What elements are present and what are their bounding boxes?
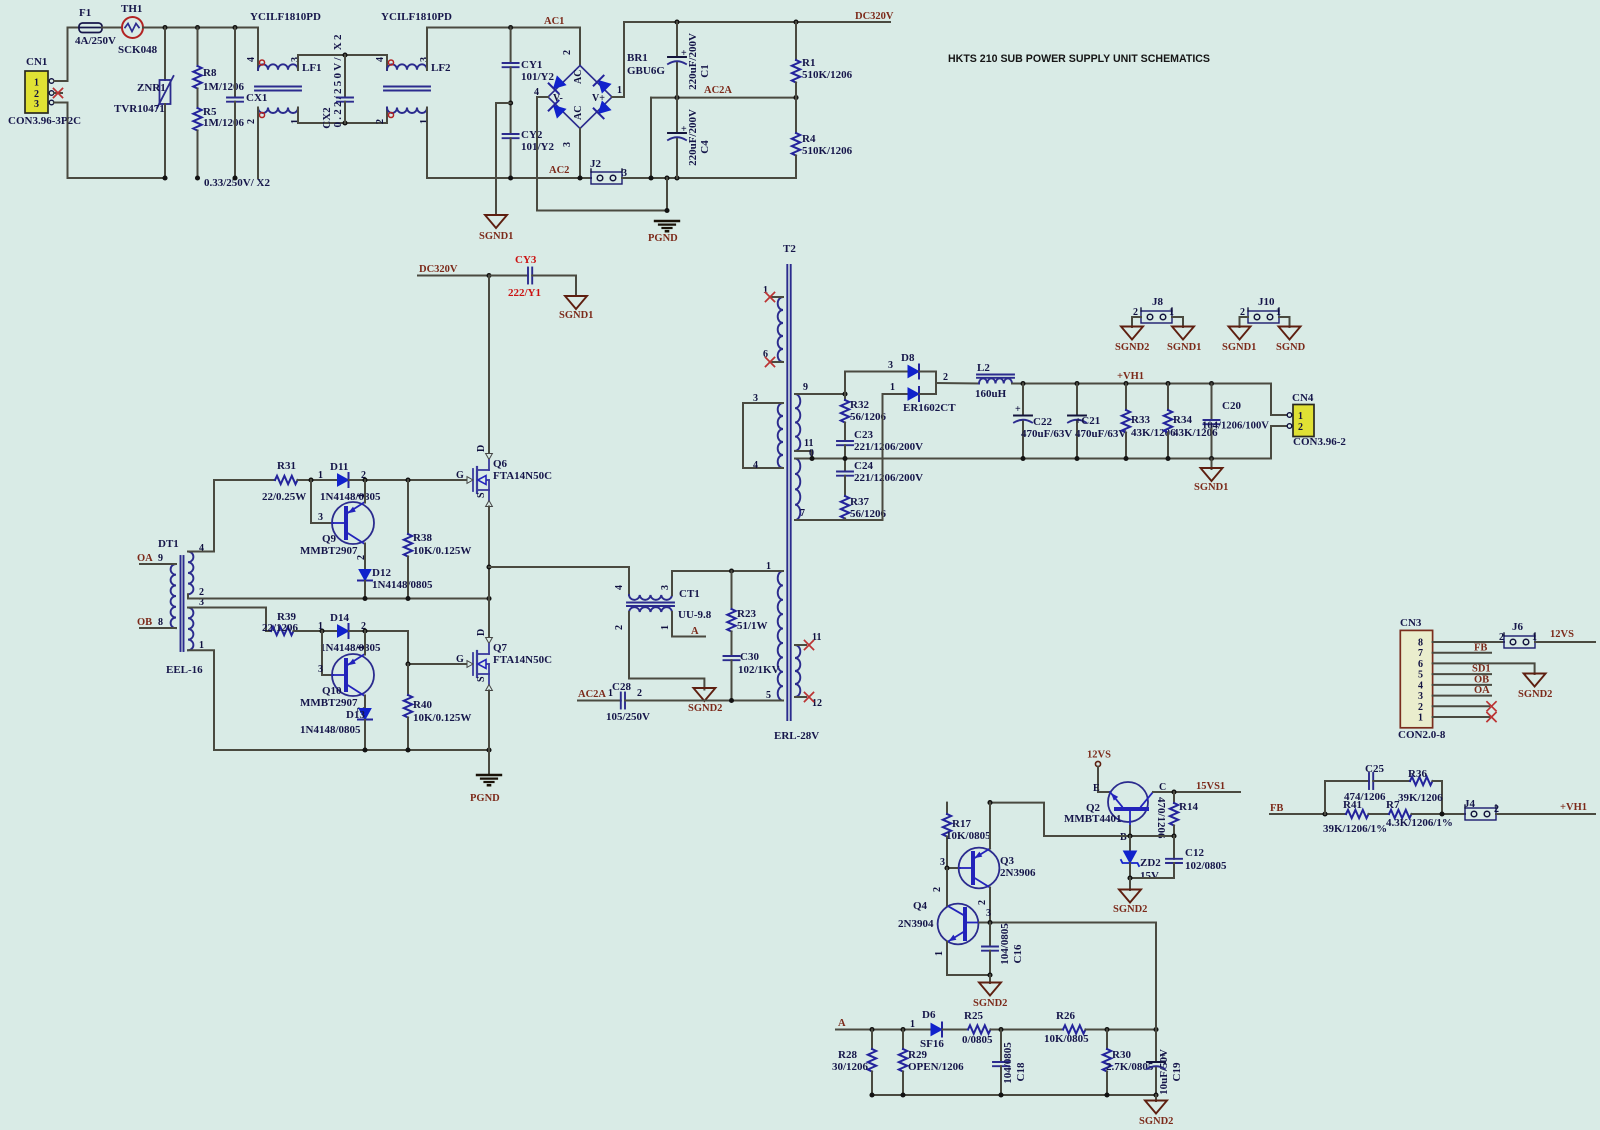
wire Q4 emitter / C16 to SGND2 — [947, 972, 993, 983]
svg-text:7: 7 — [800, 508, 805, 519]
jumper J4 — [1464, 798, 1499, 820]
svg-text:Q6: Q6 — [493, 458, 508, 470]
svg-text:C20: C20 — [1222, 400, 1241, 412]
wire CN4 pin2 to return — [1271, 426, 1287, 459]
no-connect X T2 pin1 — [766, 293, 775, 302]
junction dots bottom rail — [162, 175, 167, 180]
svg-text:HKTS 210 SUB POWER SUPPLY UNIT: HKTS 210 SUB POWER SUPPLY UNIT SCHEMATIC… — [948, 53, 1210, 65]
resistor R17 10K/0805 — [943, 800, 993, 868]
resistor R30 2.7K/0805 — [1103, 1030, 1154, 1096]
svg-text:R23: R23 — [737, 608, 756, 620]
wire to SGND1 (input) — [496, 103, 511, 215]
resistor R39 22/1206 — [262, 611, 299, 635]
wire BR1 pin4 (V-) to PGND line — [537, 97, 667, 211]
capacitor C30 102/1KV — [724, 632, 780, 701]
wire TH1 to LF1 (top rail) — [143, 28, 258, 71]
svg-text:R4: R4 — [802, 133, 816, 145]
base wire Q4 to bottom feedback — [979, 920, 1156, 925]
svg-text:J10: J10 — [1258, 296, 1275, 308]
mosfet Q6 FTA14N50C — [456, 445, 552, 507]
wire LF2 pin1 to bottom AC2 rail — [427, 108, 591, 179]
svg-text:1: 1 — [608, 688, 613, 699]
svg-text:5: 5 — [1418, 670, 1423, 681]
svg-text:3: 3 — [562, 142, 573, 147]
ground PGND (input) — [648, 221, 679, 244]
svg-text:FTA14N50C: FTA14N50C — [493, 470, 552, 482]
svg-text:SGND2: SGND2 — [1115, 342, 1149, 353]
svg-text:C18: C18 — [1015, 1062, 1027, 1081]
capacitor C16 104/0805 — [982, 923, 1024, 976]
diode D6 SF16 — [910, 1009, 944, 1050]
svg-text:220uF/200V: 220uF/200V — [687, 33, 699, 90]
svg-text:2: 2 — [375, 119, 386, 124]
wire D6 to R25 — [943, 1029, 969, 1031]
capacitor CY3 222/Y1 — [489, 254, 576, 299]
svg-text:4.3K/1206/1%: 4.3K/1206/1% — [1386, 817, 1453, 829]
capacitor C4 220uF/200V — [668, 98, 711, 178]
svg-text:A: A — [838, 1018, 846, 1029]
ground SGND2 (CT1) — [688, 688, 722, 714]
svg-text:10K/0805: 10K/0805 — [946, 830, 991, 842]
svg-text:C16: C16 — [1012, 944, 1024, 963]
ground SGND2 (J8 left) — [1115, 327, 1149, 354]
svg-text:1: 1 — [1298, 411, 1303, 422]
svg-text:R1: R1 — [802, 57, 815, 69]
diode D12 1N4148/0805 — [358, 567, 433, 599]
wire +VH1 to CN4 pin1 — [1271, 384, 1287, 416]
svg-text:9: 9 — [158, 553, 163, 564]
transformer T2 ERL-28V core — [774, 243, 819, 742]
resistor R1 510K/1206 — [792, 22, 853, 98]
varistor ZNR1 TVR10471 — [114, 28, 174, 179]
svg-text:SCK048: SCK048 — [118, 44, 158, 56]
resistor R25 0/0805 — [962, 1010, 993, 1046]
diode D13 1N4148/0805 — [300, 709, 372, 751]
wire ZD2/C12 to SGND2 — [1127, 875, 1174, 890]
T2 primary winding pins 1-5 — [766, 561, 783, 701]
wire CN1 pin1 to top rail — [54, 28, 79, 82]
wire BR1 V+ to DC320V rail — [612, 22, 890, 97]
svg-text:FTA14N50C: FTA14N50C — [493, 654, 552, 666]
svg-text:AC: AC — [573, 106, 584, 120]
net label +VH1 (J4) — [1496, 802, 1595, 814]
resistor R33 43K/1206 — [1122, 384, 1176, 459]
svg-text:D13: D13 — [346, 709, 365, 721]
wire J2 to AC2A — [622, 98, 651, 178]
svg-text:1: 1 — [34, 78, 39, 89]
svg-text:CX2: CX2 — [321, 107, 333, 129]
svg-text:3: 3 — [318, 512, 323, 523]
svg-text:1: 1 — [910, 1019, 915, 1030]
svg-text:8: 8 — [158, 617, 163, 628]
ground SGND2 (CN3 pin6) — [1518, 674, 1552, 701]
resistor R7 4.3K/1206/1% — [1386, 799, 1453, 829]
bottom return rail — [869, 1092, 1158, 1101]
output return rail dots — [1020, 456, 1214, 461]
svg-text:CY2: CY2 — [521, 129, 543, 141]
svg-text:101/Y2: 101/Y2 — [521, 71, 555, 83]
wire DT1 pin3 to R39 — [188, 608, 271, 632]
net label A (CT1 pin1) — [672, 612, 705, 637]
connector CN3 CON2.0-8 — [1398, 617, 1446, 741]
svg-text:2: 2 — [977, 900, 988, 905]
junction dot CY1/CY2 midpoint — [508, 100, 513, 105]
svg-text:V+: V+ — [592, 93, 605, 104]
T2 secondary winding pins 9-11 — [795, 382, 814, 459]
wire switch node to CT1 pin4 — [489, 567, 629, 595]
svg-text:ER1602CT: ER1602CT — [903, 402, 956, 414]
wire LF1 pin3 to LF2 pin4 (upper link) — [298, 55, 387, 70]
net label FB — [1270, 803, 1346, 817]
capacitor CY1 101/Y2 — [503, 28, 555, 135]
svg-text:1: 1 — [660, 625, 671, 630]
svg-text:R40: R40 — [413, 699, 432, 711]
resistor R36 39K/1206 — [1373, 768, 1443, 814]
connector CN1 — [8, 56, 81, 127]
net label OB pin 8 — [137, 617, 176, 628]
thermistor TH1 SCK048 — [118, 3, 158, 56]
connector CN4 CON3.96-2 — [1287, 392, 1346, 448]
capacitor C23 221/1206/200V — [837, 423, 923, 459]
svg-text:470/1206: 470/1206 — [1155, 797, 1167, 839]
svg-text:GBU6G: GBU6G — [627, 65, 665, 77]
svg-text:Q7: Q7 — [493, 642, 508, 654]
svg-text:Q4: Q4 — [913, 900, 928, 912]
svg-text:Q10: Q10 — [322, 685, 342, 697]
svg-text:102/1KV: 102/1KV — [738, 664, 780, 676]
svg-text:104/1206/100V: 104/1206/100V — [1202, 420, 1269, 432]
svg-text:4A/250V: 4A/250V — [75, 35, 116, 47]
net stub FB (CN3 pin7) — [1433, 643, 1491, 654]
wire R39 to D14 — [294, 630, 338, 632]
wire T2 pin9 node up to D8 pin3 — [845, 372, 908, 395]
resistor R40 10K/0.125W — [404, 664, 472, 750]
svg-text:2: 2 — [614, 625, 625, 630]
svg-text:R8: R8 — [203, 67, 217, 79]
gate drive transformer DT1 EEL-16 — [158, 538, 204, 676]
svg-text:D6: D6 — [922, 1009, 936, 1021]
svg-text:R30: R30 — [1112, 1049, 1131, 1061]
svg-text:R38: R38 — [413, 532, 432, 544]
svg-text:MMBT4401: MMBT4401 — [1064, 813, 1121, 825]
svg-text:MMBT2907: MMBT2907 — [300, 697, 358, 709]
svg-text:OPEN/1206: OPEN/1206 — [908, 1061, 964, 1073]
resistor R37 56/1206 — [841, 496, 887, 520]
svg-text:2: 2 — [637, 688, 642, 699]
svg-text:56/1206: 56/1206 — [850, 411, 887, 423]
svg-text:OA: OA — [1474, 685, 1490, 696]
current transformer CT1 UU-9.8 — [614, 585, 712, 630]
svg-text:DC320V: DC320V — [419, 264, 458, 275]
resistor R41 39K/1206/1% — [1323, 799, 1387, 835]
jumper J6 — [1499, 621, 1537, 648]
svg-text:+: + — [1015, 404, 1021, 415]
svg-text:10K/0.125W: 10K/0.125W — [413, 545, 471, 557]
svg-text:R34: R34 — [1173, 414, 1192, 426]
T2 shield winding pins 3-4 — [743, 393, 783, 471]
resistor R31 22/0.25W — [262, 460, 306, 503]
common-mode choke LF1 YCILF1810PD — [246, 11, 322, 124]
resistor R23 51/1W — [727, 571, 767, 632]
wire J10 pin1 to SGND — [1279, 317, 1290, 327]
svg-text:EEL-16: EEL-16 — [166, 664, 203, 676]
svg-text:OB: OB — [1474, 675, 1489, 686]
svg-text:1: 1 — [1418, 713, 1423, 724]
capacitor C24 221/1206/200V — [837, 459, 923, 497]
svg-text:1M/1206: 1M/1206 — [203, 117, 244, 129]
wire Q4 base line down to bottom net — [1155, 923, 1157, 1030]
svg-text:J6: J6 — [1512, 621, 1524, 633]
svg-text:R29: R29 — [908, 1049, 927, 1061]
svg-text:39K/1206/1%: 39K/1206/1% — [1323, 823, 1387, 835]
svg-text:221/1206/200V: 221/1206/200V — [854, 472, 923, 484]
svg-text:TH1: TH1 — [121, 3, 142, 15]
svg-text:SGND1: SGND1 — [1222, 342, 1256, 353]
svg-text:102/0805: 102/0805 — [1185, 860, 1227, 872]
svg-text:YCILF1810PD: YCILF1810PD — [381, 11, 452, 23]
svg-text:1N4148/0805: 1N4148/0805 — [320, 491, 381, 503]
wire CN3 pin6 to SGND2 — [1433, 663, 1535, 674]
svg-text:510K/1206: 510K/1206 — [802, 145, 853, 157]
no-connect X on CN1 pin 2 — [54, 89, 63, 98]
svg-text:R7: R7 — [1386, 799, 1400, 811]
wire D14 cathode to Q7 gate node — [349, 631, 466, 664]
wire CT1 pin3 to T2 pin1 — [672, 571, 783, 595]
resistor R28 30/1206 — [832, 1027, 876, 1095]
resistor R5 1M/1206 — [193, 89, 244, 179]
svg-text:AC2: AC2 — [549, 165, 569, 176]
capacitor C22 470uF/63V — [1014, 384, 1072, 459]
svg-text:R17: R17 — [952, 818, 971, 830]
svg-text:3: 3 — [419, 57, 430, 62]
net AC2A rail — [651, 97, 796, 99]
wire R41 to R7 — [1369, 813, 1390, 815]
svg-text:SGND1: SGND1 — [1194, 482, 1228, 493]
svg-text:Q9: Q9 — [322, 533, 337, 545]
svg-text:R36: R36 — [1408, 768, 1427, 780]
net stub OB (CN3 pin4) — [1433, 675, 1491, 686]
svg-text:C19: C19 — [1171, 1062, 1183, 1081]
wire R7 to J4 — [1412, 813, 1466, 815]
ground SGND1 (output) — [1194, 459, 1228, 494]
svg-text:0/0805: 0/0805 — [962, 1034, 993, 1046]
wire R26 to C19 column — [1086, 1029, 1157, 1031]
wire J8 pin1 to SGND1 — [1172, 317, 1183, 327]
wire CT1 pin2 to SGND2 — [629, 612, 704, 690]
svg-text:104/0805: 104/0805 — [999, 923, 1011, 965]
junction R17/Q3/Q4 — [944, 865, 949, 870]
capacitor C18 104/0805 — [993, 1030, 1027, 1096]
svg-text:TVR10471: TVR10471 — [114, 103, 165, 115]
svg-text:4: 4 — [375, 57, 386, 62]
bottom rail to R4 — [651, 177, 796, 179]
wire PGND stem — [666, 178, 668, 211]
svg-text:PGND: PGND — [470, 793, 500, 804]
resistor R26 10K/0805 — [1044, 1010, 1089, 1045]
jumper J10 — [1240, 296, 1281, 323]
common-mode choke LF2 YCILF1810PD — [375, 11, 452, 124]
svg-text:C30: C30 — [740, 651, 759, 663]
svg-text:2: 2 — [1499, 632, 1504, 643]
capacitor CY2 101/Y2 — [503, 129, 555, 178]
svg-text:2: 2 — [1418, 702, 1423, 713]
svg-text:2N3906: 2N3906 — [1000, 867, 1036, 879]
svg-text:ZNR1: ZNR1 — [137, 82, 166, 94]
wire J10 pin2 to SGND1 — [1240, 317, 1249, 327]
svg-text:7: 7 — [1418, 648, 1423, 659]
svg-text:DC320V: DC320V — [855, 11, 894, 22]
svg-text:1N4148/0805: 1N4148/0805 — [372, 579, 433, 591]
svg-text:OB: OB — [137, 617, 152, 628]
junction dots DC320V rail — [674, 19, 679, 24]
transistor Q10 MMBT2907 — [300, 631, 374, 712]
ground SGND2 (bottom) — [1139, 1101, 1173, 1128]
svg-text:YCILF1810PD: YCILF1810PD — [250, 11, 321, 23]
svg-text:3: 3 — [34, 99, 39, 110]
svg-text:DT1: DT1 — [158, 538, 179, 550]
svg-text:9: 9 — [803, 382, 808, 393]
svg-text:C12: C12 — [1185, 847, 1204, 859]
jumper J2 — [590, 158, 627, 184]
transistor Q9 MMBT2907 — [300, 480, 374, 569]
capacitor C20 104/1206/100V — [1202, 384, 1269, 459]
svg-text:ERL-28V: ERL-28V — [774, 730, 819, 742]
svg-text:CY3: CY3 — [515, 254, 537, 266]
svg-text:1: 1 — [934, 951, 945, 956]
net label OA pin 9 — [137, 553, 176, 564]
ground SGND1 (J8 right) — [1167, 327, 1201, 354]
wire CY3 to SGND1 — [575, 276, 577, 297]
svg-text:2: 2 — [943, 372, 948, 383]
capacitor C25 474/1206 — [1325, 763, 1386, 814]
wire DT1 pin4 up to R31 — [188, 480, 275, 552]
T2 secondary winding pins 10-7 — [795, 459, 805, 521]
ground SGND1 (input filter) — [479, 215, 513, 242]
svg-text:R37: R37 — [850, 496, 869, 508]
svg-text:12VS: 12VS — [1550, 629, 1574, 640]
svg-text:12VS: 12VS — [1087, 750, 1111, 761]
svg-text:1: 1 — [356, 645, 367, 650]
svg-text:2: 2 — [562, 50, 573, 55]
svg-text:56/1206: 56/1206 — [850, 508, 887, 520]
T2 aux winding pins 1-6 — [763, 285, 783, 362]
svg-text:C22: C22 — [1033, 416, 1052, 428]
svg-text:6: 6 — [1418, 659, 1423, 670]
net label A (bottom) — [836, 1018, 931, 1030]
diode D14 1N4148/0805 — [318, 612, 381, 654]
svg-text:AC2A: AC2A — [704, 85, 732, 96]
svg-text:R14: R14 — [1179, 801, 1198, 813]
svg-text:C23: C23 — [854, 429, 873, 441]
svg-text:OA: OA — [137, 553, 153, 564]
svg-text:3: 3 — [660, 585, 671, 590]
svg-text:F1: F1 — [79, 7, 91, 19]
svg-text:R26: R26 — [1056, 1010, 1075, 1022]
svg-text:30/1206: 30/1206 — [832, 1061, 869, 1073]
svg-text:CN3: CN3 — [1400, 617, 1422, 629]
ground SGND2 (regulator) — [1113, 890, 1147, 916]
svg-text:1M/1206: 1M/1206 — [203, 81, 244, 93]
ground SGND1 (J10 left) — [1222, 327, 1256, 354]
svg-text:CN1: CN1 — [26, 56, 47, 68]
wire LF2 pin3 to AC1 rail — [427, 28, 580, 71]
svg-text:S: S — [476, 492, 487, 498]
wire C28 to T2 pin5 — [625, 700, 783, 702]
svg-text:SD1: SD1 — [1472, 664, 1491, 675]
ground PGND (half bridge) — [470, 775, 501, 804]
svg-text:D: D — [476, 629, 487, 636]
svg-text:8: 8 — [1418, 638, 1423, 649]
wire LF1 pin1 to LF2 pin2 (lower link) — [298, 108, 387, 124]
resistor R32 56/1206 — [805, 391, 887, 423]
svg-text:22/0.25W: 22/0.25W — [262, 491, 306, 503]
svg-text:FB: FB — [1474, 643, 1487, 654]
no-connect X T2 pin6 — [766, 358, 775, 367]
wire J8 pin2 to SGND2 — [1132, 317, 1141, 327]
svg-text:CON2.0-8: CON2.0-8 — [1398, 729, 1446, 741]
center tap rail (T2 pin10 to output return) — [795, 456, 1271, 461]
svg-text:470uF/63V: 470uF/63V — [1075, 428, 1126, 440]
svg-text:1N4148/0805: 1N4148/0805 — [320, 642, 381, 654]
resistor R4 510K/1206 — [792, 98, 853, 178]
svg-text:C28: C28 — [612, 681, 631, 693]
svg-text:SGND2: SGND2 — [1139, 1116, 1173, 1127]
svg-text:LF2: LF2 — [431, 62, 451, 74]
switch node wire (DT1 pin2 / D12 / R38 / Q6 source) — [188, 594, 492, 601]
diode D11 1N4148/0805 — [318, 461, 381, 503]
wire CN1 pin3 to bottom rail — [54, 103, 165, 179]
junction dots top rail — [162, 25, 167, 30]
ground SGND1 (CY3) — [559, 296, 593, 321]
svg-text:D14: D14 — [330, 612, 349, 624]
svg-text:2: 2 — [932, 887, 943, 892]
svg-text:J4: J4 — [1464, 798, 1476, 810]
svg-text:T2: T2 — [783, 243, 796, 255]
svg-text:R25: R25 — [964, 1010, 983, 1022]
resistor R38 10K/0.125W — [404, 480, 472, 599]
svg-text:4: 4 — [246, 57, 257, 62]
no-connect X T2 pin11 — [805, 641, 814, 650]
svg-text:15VS1: 15VS1 — [1196, 781, 1225, 792]
wire DC320V to Q6 drain — [488, 276, 490, 455]
svg-text:R31: R31 — [277, 460, 296, 472]
svg-text:D8: D8 — [901, 352, 915, 364]
svg-text:1: 1 — [890, 382, 895, 393]
wire Q6 source down / to CT1 — [486, 507, 491, 638]
base wire Q2 (R17 node to base) — [990, 803, 1177, 839]
svg-text:R41: R41 — [1343, 799, 1362, 811]
capacitor C28 105/250V — [578, 681, 650, 723]
svg-text:10K/0.125W: 10K/0.125W — [413, 712, 471, 724]
dual diode D8 ER1602CT — [901, 352, 956, 414]
svg-text:2: 2 — [1298, 422, 1303, 433]
transistor Q2 MMBT4401 — [1064, 782, 1240, 843]
svg-text:3: 3 — [940, 857, 945, 868]
ground SGND (J10 right) — [1276, 327, 1306, 354]
svg-text:V-: V- — [553, 93, 563, 104]
wire F1 to TH1 — [102, 27, 122, 29]
svg-text:105/250V: 105/250V — [606, 711, 650, 723]
svg-text:470uF/63V: 470uF/63V — [1021, 428, 1072, 440]
svg-text:0.22/250V/ X2: 0.22/250V/ X2 — [332, 34, 344, 128]
svg-text:3: 3 — [888, 360, 893, 371]
svg-text:J8: J8 — [1152, 296, 1164, 308]
svg-text:+VH1: +VH1 — [1117, 371, 1144, 382]
svg-text:UU-9.8: UU-9.8 — [678, 609, 712, 621]
bridge rectifier BR1 GBU6G — [534, 50, 665, 147]
svg-text:10uF/50V: 10uF/50V — [1158, 1049, 1170, 1095]
+VH1 output rail — [1012, 371, 1271, 386]
